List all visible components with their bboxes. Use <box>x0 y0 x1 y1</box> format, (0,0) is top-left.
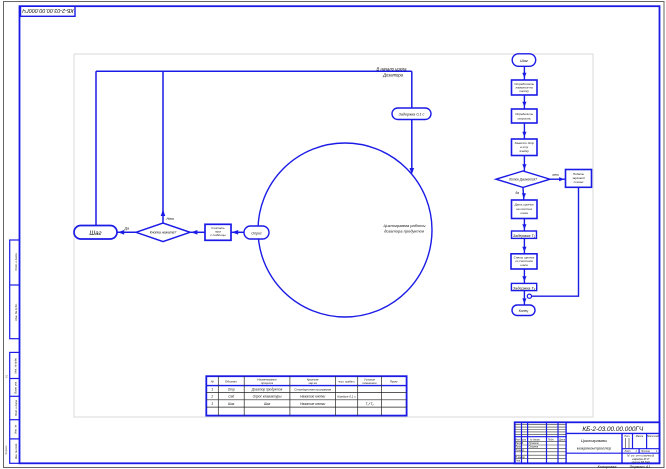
svg-text:Утв.: Утв. <box>515 460 521 462</box>
svg-text:Шаг: Шаг <box>520 59 528 63</box>
terminator Задержка 0,1 с <box>392 108 431 120</box>
svg-text:Шаг: Шаг <box>264 402 271 406</box>
process Задержка Т2 <box>511 283 536 290</box>
label В начало цикла Дозатора <box>376 66 407 77</box>
wire decision to alarm rect <box>550 177 566 181</box>
title block institution cell <box>627 454 654 464</box>
wire process 1 to process 2 <box>522 95 526 109</box>
wire delay T1 to process 5 <box>522 238 526 253</box>
wire return vertical to delay and circle <box>410 71 415 174</box>
svg-text:Определить: Определить <box>515 112 533 116</box>
svg-text:числ. срабат.: числ. срабат. <box>338 379 355 383</box>
svg-text:Отр: Отр <box>228 388 235 392</box>
svg-text:Инв. №: Инв. № <box>14 425 18 434</box>
svg-text:Нажатие кнопки: Нажатие кнопки <box>300 402 325 406</box>
title block name cell <box>566 433 659 463</box>
label да (decision down) <box>516 191 520 195</box>
svg-text:процесса: процесса <box>261 381 274 385</box>
svg-text:Пров.: Пров. <box>515 446 521 448</box>
svg-text:нет: нет <box>553 173 559 177</box>
svg-text:Лоток Движется?: Лоток Движется? <box>508 178 537 182</box>
svg-text:Подп. и дата: Подп. и дата <box>14 253 18 271</box>
svg-text:Задержка 0,1 с: Задержка 0,1 с <box>399 113 425 117</box>
svg-text:Инв. № дубл.: Инв. № дубл. <box>14 303 18 320</box>
svg-text:Пузанков: Пузанков <box>529 443 540 445</box>
svg-text:хар-ка: хар-ка <box>308 381 318 385</box>
svg-text:Нет: Нет <box>167 217 175 221</box>
title block vertical blue columns <box>522 422 567 463</box>
process Задержка Т1 <box>512 231 537 238</box>
svg-text:2: 2 <box>210 395 213 399</box>
stamp box rotated doc number <box>21 6 76 16</box>
process Дать щелчок на счетчик шага <box>512 200 538 219</box>
process Снять щелчок со счетчика шага <box>511 254 537 269</box>
terminator Конец <box>512 305 535 316</box>
svg-text:скорость: скорость <box>517 116 531 120</box>
svg-text:Опрос клавиатуры: Опрос клавиатуры <box>253 395 282 399</box>
wire start to process 1 <box>522 66 526 80</box>
svg-text:ячейку: ячейку <box>518 149 529 153</box>
wire delay T2 to end <box>522 291 526 305</box>
svg-text:Нажатие кнопки: Нажатие кнопки <box>300 395 325 399</box>
svg-text:Циклограммы: Циклограммы <box>581 438 607 443</box>
svg-text:да: да <box>516 191 520 195</box>
svg-text:Формат А1: Формат А1 <box>630 465 651 469</box>
title block signature rows <box>515 443 539 462</box>
svg-text:Формат: Формат <box>4 445 8 455</box>
svg-text:Разраб.: Разраб. <box>515 443 524 445</box>
svg-text:Опрос: Опрос <box>251 231 262 235</box>
svg-text:Копировал: Копировал <box>598 465 618 469</box>
terminator Шаг <box>74 226 117 240</box>
svg-text:Инв. № подл.: Инв. № подл. <box>14 443 18 459</box>
svg-text:Смирнов: Смирнов <box>529 446 539 448</box>
footer labels Копировал Формат <box>598 465 651 469</box>
title block main row lines <box>515 437 566 459</box>
svg-text:Масса: Масса <box>636 435 644 438</box>
wire process rect to diamond <box>190 230 205 235</box>
svg-text:Инв. № дубл.: Инв. № дубл. <box>13 357 17 373</box>
decision Кнопка нажата? <box>136 223 190 242</box>
left margin box group upper <box>10 240 20 339</box>
svg-text:Масштаб: Масштаб <box>647 435 659 438</box>
wire alarm feedback down and left <box>531 187 578 296</box>
process Занести дозу в эту ячейку <box>512 139 538 156</box>
svg-text:Т.контр.: Т.контр. <box>515 450 525 452</box>
svg-text:Кнопка нажата?: Кнопка нажата? <box>150 231 177 235</box>
svg-text:Шаг: Шаг <box>228 402 235 406</box>
svg-text:Дата: Дата <box>558 439 566 441</box>
svg-text:изменения: изменения <box>363 381 377 385</box>
svg-text:1: 1 <box>211 388 213 392</box>
table row 3 <box>211 402 374 406</box>
svg-text:Каждые 0,1 с: Каждые 0,1 с <box>337 395 356 399</box>
svg-text:Взам. инв.: Взам. инв. <box>14 381 18 394</box>
svg-text:Дозатора: Дозатора <box>382 73 404 78</box>
title block document number cell <box>566 426 659 433</box>
left margin box group lower <box>10 352 20 463</box>
svg-text:кнопку: кнопку <box>520 89 530 93</box>
svg-text:Конец: Конец <box>519 309 529 313</box>
svg-text:сигнал: сигнал <box>574 180 584 184</box>
title block Лит Масса Масштаб cells <box>622 433 660 448</box>
svg-text:А1: А1 <box>4 374 8 378</box>
wire top horizontal (Нет return path to delay) <box>96 70 412 72</box>
table row 2 <box>210 395 356 399</box>
svg-text:Подп.: Подп. <box>548 438 554 441</box>
svg-text:Н.контр.: Н.контр. <box>515 457 525 459</box>
wire process 4 to delay T1 <box>522 219 526 232</box>
svg-text:группа ЗФ 5/42: группа ЗФ 5/42 <box>632 460 651 464</box>
table row 1 <box>211 388 331 392</box>
wire left vertical into Шаг terminator <box>95 71 97 225</box>
svg-text:Стандартная программа: Стандартная программа <box>294 388 331 392</box>
wire oval to process rect <box>231 230 244 235</box>
wire process 3 to decision <box>522 156 526 172</box>
process table grid <box>206 376 406 415</box>
big circle cyclogram <box>258 143 432 317</box>
svg-text:Прим.: Прим. <box>390 379 399 383</box>
label Нет <box>167 217 175 221</box>
wire process 2 to process 3 <box>522 123 526 139</box>
table header labels <box>211 378 399 386</box>
title block header row labels <box>515 438 565 441</box>
svg-text:с таблицы: с таблицы <box>210 233 226 237</box>
svg-text:Лит.: Лит. <box>623 435 630 438</box>
svg-text:Листов: Листов <box>640 450 650 453</box>
wire Да from diamond to Шаг <box>117 230 136 235</box>
svg-text:№ докум.: № докум. <box>530 438 540 441</box>
svg-text:Т₁+Т₂: Т₁+Т₂ <box>366 402 375 406</box>
wire decision to process 4 <box>522 187 526 200</box>
margin mark upper <box>4 374 8 378</box>
svg-text:Да: Да <box>124 226 130 230</box>
title block outer <box>515 422 660 463</box>
process Считать пуск с таблицы <box>205 224 231 240</box>
junction node <box>527 294 531 298</box>
label Да <box>124 226 130 230</box>
decision Лоток движется? <box>496 171 550 187</box>
svg-text:Дать щелчок: Дать щелчок <box>514 202 535 206</box>
svg-text:Дозатор продуктов: Дозатор продуктов <box>251 388 283 392</box>
svg-text:Шаг: Шаг <box>89 230 101 237</box>
svg-text:шага: шага <box>520 263 528 267</box>
process Определить скорость <box>512 109 538 123</box>
title block revision grid thin rows <box>515 425 566 435</box>
terminator Опрос on circle edge <box>244 226 269 239</box>
process Отработать нажатие на кнопку <box>512 80 538 95</box>
svg-text:дозатора продуктов: дозатора продуктов <box>384 229 424 234</box>
svg-text:КБ-2-03.00.00.000ГЧ: КБ-2-03.00.00.000ГЧ <box>582 426 644 433</box>
process Подать звуковой сигнал <box>566 170 592 188</box>
terminator Шаг (right column start) <box>512 54 536 67</box>
svg-text:Циклограмма работы: Циклограмма работы <box>384 223 426 228</box>
svg-text:Подп. и дата: Подп. и дата <box>14 399 18 416</box>
inner light border <box>74 54 593 417</box>
title block Лист Листов row <box>624 449 659 454</box>
svg-text:Саб: Саб <box>228 395 234 399</box>
svg-text:на счетчик: на счетчик <box>516 207 532 211</box>
svg-text:Задержка Т₁: Задержка Т₁ <box>513 233 536 238</box>
label нет (decision right) <box>553 173 559 177</box>
svg-text:шага: шага <box>521 211 529 215</box>
svg-text:Изм Лист: Изм Лист <box>515 439 526 441</box>
wire process 5 to delay T2 <box>522 269 526 283</box>
svg-text:микроконтроллер: микроконтроллер <box>577 445 612 450</box>
svg-text:Задержка Т₂: Задержка Т₂ <box>513 285 536 290</box>
svg-text:КБ-2-03.00.00.000ГЧ: КБ-2-03.00.00.000ГЧ <box>22 7 74 13</box>
svg-text:Лист: Лист <box>624 450 631 453</box>
svg-text:В начало цикла: В начало цикла <box>376 66 407 71</box>
svg-text:3: 3 <box>211 402 213 406</box>
svg-text:Обознач.: Обознач. <box>225 379 238 383</box>
wire Нет vertical from diamond up <box>161 71 166 223</box>
margin mark lower <box>4 445 8 455</box>
